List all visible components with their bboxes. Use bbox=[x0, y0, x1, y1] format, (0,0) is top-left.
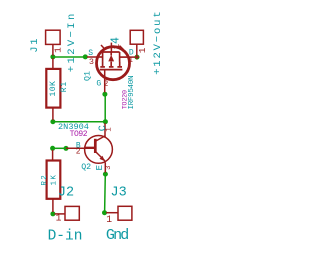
svg-text:10K: 10K bbox=[49, 81, 58, 97]
svg-text:R2: R2 bbox=[41, 174, 49, 186]
svg-text:TO92: TO92 bbox=[70, 130, 88, 139]
svg-text:E: E bbox=[94, 165, 105, 171]
svg-text:2: 2 bbox=[104, 80, 109, 89]
svg-text:Gnd: Gnd bbox=[106, 227, 128, 244]
svg-text:G: G bbox=[96, 79, 101, 88]
svg-text:Q2: Q2 bbox=[81, 163, 91, 172]
svg-text:4: 4 bbox=[109, 37, 122, 44]
svg-text:J1: J1 bbox=[29, 37, 41, 53]
svg-text:1: 1 bbox=[106, 214, 112, 225]
svg-text:1K: 1K bbox=[50, 174, 58, 186]
svg-text:Q1: Q1 bbox=[84, 71, 93, 81]
svg-text:2: 2 bbox=[76, 148, 81, 157]
svg-text:+12V−In: +12V−In bbox=[66, 11, 78, 72]
svg-text:TO220: TO220 bbox=[122, 90, 130, 109]
svg-text:1: 1 bbox=[129, 57, 133, 65]
svg-text:J3: J3 bbox=[111, 186, 127, 201]
svg-text:1: 1 bbox=[52, 47, 63, 53]
svg-text:D-in: D-in bbox=[48, 229, 83, 245]
svg-text:3: 3 bbox=[105, 166, 113, 170]
svg-text:1: 1 bbox=[106, 127, 114, 132]
svg-text:R1: R1 bbox=[60, 81, 69, 92]
svg-text:1: 1 bbox=[56, 213, 62, 224]
svg-text:3: 3 bbox=[89, 57, 94, 67]
svg-text:1: 1 bbox=[112, 44, 122, 49]
svg-text:1: 1 bbox=[137, 47, 148, 53]
svg-text:+12V−out: +12V−out bbox=[152, 9, 164, 74]
svg-text:J2: J2 bbox=[58, 186, 74, 201]
